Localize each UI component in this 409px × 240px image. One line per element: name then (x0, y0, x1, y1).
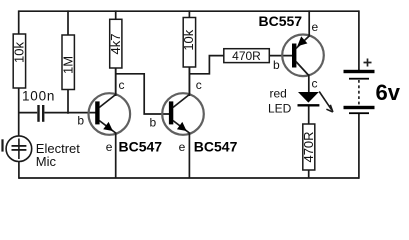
svg-text:c: c (119, 78, 125, 92)
svg-text:e: e (106, 140, 113, 154)
svg-text:e: e (179, 140, 186, 154)
svg-text:LED: LED (268, 102, 292, 116)
svg-text:4k7: 4k7 (108, 34, 123, 55)
svg-text:b: b (77, 114, 84, 128)
svg-text:BC547: BC547 (119, 139, 163, 155)
svg-text:470R: 470R (232, 49, 261, 63)
svg-text:b: b (273, 58, 280, 72)
svg-text:e: e (312, 20, 319, 34)
svg-text:b: b (150, 116, 157, 130)
svg-text:BC557: BC557 (259, 13, 303, 29)
svg-text:1M: 1M (61, 56, 76, 74)
svg-text:470R: 470R (301, 131, 316, 162)
svg-text:BC547: BC547 (194, 139, 238, 155)
svg-text:Mic: Mic (36, 154, 57, 169)
svg-text:red: red (270, 87, 287, 101)
svg-text:6v: 6v (376, 80, 401, 105)
svg-text:c: c (196, 78, 202, 92)
svg-text:100n: 100n (22, 89, 55, 104)
svg-text:c: c (312, 77, 318, 91)
svg-text:10k: 10k (181, 29, 196, 50)
svg-text:10k: 10k (12, 42, 27, 63)
